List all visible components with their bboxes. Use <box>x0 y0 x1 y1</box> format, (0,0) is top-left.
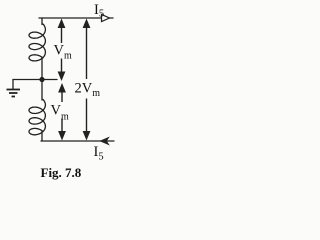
svg-text:2Vm: 2Vm <box>75 81 101 100</box>
arrow Vm bottom (double-headed) <box>58 83 66 141</box>
wire between L1 and center node <box>41 58 43 80</box>
wire top horizontal <box>39 17 113 19</box>
wire center node to L2 <box>41 79 43 100</box>
arrow I5 top (open arrowhead, pointing right) <box>102 14 110 21</box>
ground stub wire <box>12 80 14 90</box>
svg-text:Vm: Vm <box>54 43 72 62</box>
node center junction dot <box>39 77 44 82</box>
wire top-left vertical stub <box>41 18 43 25</box>
arrow 2Vm (full height, double-headed) <box>83 19 91 141</box>
svg-text:I5: I5 <box>94 2 104 20</box>
svg-text:Fig. 7.8: Fig. 7.8 <box>41 165 82 180</box>
arrow I5 bottom (pointing left) <box>100 137 109 145</box>
arrow Vm top (double-headed) <box>58 19 66 82</box>
inductor L1 (top coil) <box>29 24 45 61</box>
wire center horizontal to ground <box>13 79 57 81</box>
svg-text:I5: I5 <box>94 144 104 163</box>
wire below L2 <box>41 131 43 141</box>
inductor L2 (bottom coil) <box>29 100 45 135</box>
svg-text:Vm: Vm <box>51 103 69 123</box>
ground symbol <box>7 90 21 97</box>
wire bottom horizontal <box>41 140 114 142</box>
